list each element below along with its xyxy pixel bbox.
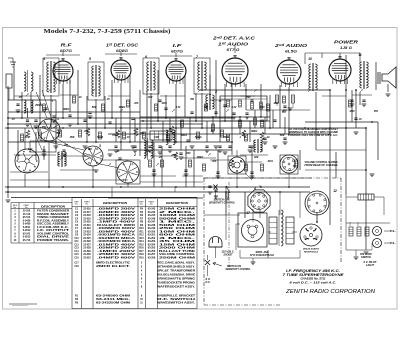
svg-text:CONTROL FULL ON. LINE AT 115 V: CONTROL FULL ON. LINE AT 115 V. A.C.: [288, 134, 338, 137]
svg-text:SPK.&T. TRANSFORMER: SPK.&T. TRANSFORMER: [157, 270, 195, 273]
svg-text:No.: No.: [75, 204, 79, 206]
svg-text:SETANDR.SHIELD ASSY.: SETANDR.SHIELD ASSY.: [157, 266, 195, 269]
svg-text:3: 3: [99, 144, 101, 148]
svg-text:1ˢᵗ AUDIO: 1ˢᵗ AUDIO: [218, 42, 249, 47]
svg-text:DESCRIPTION: DESCRIPTION: [166, 201, 188, 205]
svg-text:1J5 G: 1J5 G: [340, 46, 352, 50]
svg-text:P.L.: P.L.: [390, 242, 396, 245]
svg-text:1MEG: 1MEG: [251, 131, 258, 133]
svg-text:R12: R12: [139, 235, 144, 237]
svg-text:6T7 G: 6T7 G: [227, 48, 240, 52]
svg-text:2ⁿᵈ AUDIO: 2ⁿᵈ AUDIO: [274, 43, 308, 48]
svg-text:R.F: R.F: [61, 43, 72, 48]
svg-text:12: 12: [333, 189, 337, 193]
svg-text:63-242250M OHM: 63-242250M OHM: [96, 302, 130, 305]
svg-text:ON - OFF: ON - OFF: [360, 254, 373, 256]
svg-text:250M: 250M: [222, 137, 229, 139]
svg-text:22-531: 22-531: [83, 256, 91, 259]
svg-text:.006: .006: [134, 103, 139, 105]
svg-text:I.F: I.F: [173, 43, 182, 48]
svg-text:R19: R19: [139, 257, 144, 259]
svg-text:6.3V: 6.3V: [232, 107, 237, 109]
svg-text:SENSITIVITY CONTROL: SENSITIVITY CONTROL: [209, 203, 236, 205]
svg-text:100V: 100V: [185, 153, 191, 155]
svg-text:456: 456: [63, 144, 69, 147]
svg-text:C12: C12: [74, 244, 79, 246]
svg-text:C18: C18: [74, 266, 79, 268]
svg-text:.002: .002: [84, 131, 89, 133]
svg-text:R13: R13: [139, 238, 144, 240]
svg-text:C11: C11: [74, 241, 79, 243]
svg-text:3-30: 3-30: [28, 149, 33, 151]
svg-text:R10: R10: [139, 228, 144, 230]
svg-text:SOCKET: SOCKET: [224, 255, 234, 257]
svg-text:180V: 180V: [349, 111, 355, 113]
svg-text:No.: No.: [85, 204, 89, 206]
svg-text:6 V.: 6 V.: [206, 279, 211, 281]
svg-text:No.: No.: [150, 204, 154, 206]
svg-text:C14: C14: [74, 250, 79, 253]
svg-text:.0001: .0001: [267, 161, 273, 163]
svg-text:DESCRIPTION: DESCRIPTION: [41, 205, 65, 209]
svg-text:8MFD: 8MFD: [181, 135, 188, 137]
svg-text:LIGHT: LIGHT: [366, 265, 375, 267]
svg-text:2: 2: [133, 153, 136, 157]
svg-text:6D7G: 6D7G: [171, 50, 183, 54]
svg-text:115 V. A.C.: 115 V. A.C.: [222, 252, 235, 254]
svg-text:.04MFD 600V: .04MFD 600V: [97, 256, 136, 259]
svg-text:C13: C13: [74, 248, 79, 250]
svg-text:2MFD ELECT.: 2MFD ELECT.: [96, 265, 131, 268]
svg-text:250M: 250M: [34, 105, 41, 107]
svg-text:TUBESOCKET8 PRONG: TUBESOCKET8 PRONG: [157, 282, 195, 285]
svg-text:250V: 250V: [244, 97, 251, 99]
svg-text:-3V: -3V: [24, 137, 28, 139]
svg-text:6.3V: 6.3V: [146, 151, 151, 153]
svg-text:6D8G: 6D8G: [116, 49, 128, 53]
svg-text:10: 10: [308, 57, 312, 61]
svg-text:100V: 100V: [259, 107, 265, 109]
svg-text:R11: R11: [139, 231, 144, 233]
svg-text:C15: C15: [74, 254, 79, 256]
svg-text:DESCRIPTION: DESCRIPTION: [103, 201, 127, 205]
svg-text:85V: 85V: [374, 111, 379, 113]
svg-text:2MEG: 2MEG: [196, 157, 204, 159]
svg-text:85V: 85V: [42, 127, 47, 129]
svg-text:No.: No.: [140, 204, 144, 206]
svg-text:SWITCH ON: SWITCH ON: [227, 266, 241, 268]
svg-text:POWER TRANS.: POWER TRANS.: [37, 239, 70, 242]
svg-text:1.5M: 1.5M: [153, 137, 158, 139]
svg-text:POWER: POWER: [334, 40, 359, 45]
svg-text:.5MEG: .5MEG: [194, 137, 201, 139]
svg-text:1: 1: [57, 117, 59, 121]
svg-text:2MEG: 2MEG: [118, 107, 126, 109]
svg-text:C10: C10: [74, 238, 79, 240]
svg-text:SENSITIVITY CONTROL: SENSITIVITY CONTROL: [226, 269, 252, 271]
svg-text:R15: R15: [139, 244, 144, 246]
svg-text:180V: 180V: [273, 103, 279, 105]
svg-text:WAFERSOCKET ASSY.: WAFERSOCKET ASSY.: [157, 286, 195, 289]
svg-text:6: 6: [145, 55, 147, 59]
svg-text:95-710: 95-710: [23, 239, 31, 242]
svg-text:6L5G: 6L5G: [285, 50, 297, 54]
svg-text:6 volt D.C. ~ 115 volt A.C: 6 volt D.C. ~ 115 volt A.C.: [290, 281, 337, 285]
svg-text:P.L.: P.L.: [390, 230, 396, 233]
svg-text:3-30: 3-30: [176, 107, 181, 109]
svg-text:D.C.: D.C.: [206, 282, 211, 284]
svg-text:250V: 250V: [170, 155, 177, 157]
svg-text:500M: 500M: [97, 137, 103, 139]
svg-text:DRIVESHAFT& SPRING: DRIVESHAFT& SPRING: [157, 278, 195, 281]
svg-text:.0001: .0001: [161, 103, 167, 105]
svg-text:C17: C17: [74, 263, 79, 265]
svg-text:Models 7-J-232, 7-J-259 (5711: Models 7-J-232, 7-J-259 (5711 Chassis): [44, 28, 171, 35]
svg-text:250M OHM: 250M OHM: [159, 256, 195, 259]
svg-text:R16: R16: [139, 248, 144, 250]
svg-text:.006: .006: [212, 161, 217, 163]
svg-text:REC.CANC.&DIAL ASSY.: REC.CANC.&DIAL ASSY.: [157, 262, 195, 265]
svg-text:4: 4: [42, 57, 45, 61]
svg-text:1ˢᵗ DET. OSC: 1ˢᵗ DET. OSC: [106, 43, 139, 48]
svg-text:7: 7: [196, 55, 198, 59]
svg-text:63-258: 63-258: [148, 256, 156, 259]
svg-text:RECEPTACLE: RECEPTACLE: [304, 252, 319, 254]
svg-text:WAVESWITCH ASSY.: WAVESWITCH ASSY.: [157, 302, 196, 305]
svg-text:SWITCH ON: SWITCH ON: [214, 200, 229, 202]
svg-text:SWITCH: SWITCH: [361, 257, 371, 259]
svg-text:-3V: -3V: [358, 119, 362, 121]
svg-text:50M: 50M: [280, 135, 285, 137]
svg-text:1MEG: 1MEG: [63, 109, 70, 111]
svg-text:49125 AUDIO: 49125 AUDIO: [302, 248, 320, 251]
svg-text:R17: R17: [139, 251, 144, 253]
svg-text:10M: 10M: [254, 157, 259, 159]
svg-text:6 V. PILOT: 6 V. PILOT: [364, 262, 378, 264]
svg-text:ZENITH RADIO CORPORATION: ZENITH RADIO CORPORATION: [285, 289, 376, 295]
svg-text:C16: C16: [74, 257, 79, 259]
svg-text:50M: 50M: [92, 107, 97, 109]
svg-text:8: 8: [215, 90, 217, 94]
svg-text:10M: 10M: [148, 97, 153, 99]
svg-text:11: 11: [358, 53, 362, 57]
svg-text:SPKR. AND: SPKR. AND: [256, 252, 269, 254]
svg-text:15M: 15M: [140, 133, 145, 135]
svg-text:FROM REAR OF CHASSIS: FROM REAR OF CHASSIS: [305, 164, 338, 167]
svg-text:6D7G: 6D7G: [60, 49, 72, 53]
svg-text:R14: R14: [139, 240, 144, 243]
svg-text:9: 9: [282, 110, 284, 114]
svg-text:BULBGLASS&DIAL DRIVE: BULBGLASS&DIAL DRIVE: [157, 274, 196, 277]
svg-text:25M: 25M: [69, 137, 75, 139]
svg-text:5717-B RECEPTACLE: 5717-B RECEPTACLE: [250, 255, 274, 257]
svg-text:70V: 70V: [112, 135, 117, 137]
svg-text:5: 5: [89, 57, 91, 61]
svg-text:2ⁿᵈ DET. A.V.C: 2ⁿᵈ DET. A.V.C: [212, 36, 256, 41]
svg-text:456: 456: [189, 98, 195, 101]
svg-text:R18: R18: [139, 254, 144, 256]
svg-text:No.: No.: [13, 207, 17, 209]
